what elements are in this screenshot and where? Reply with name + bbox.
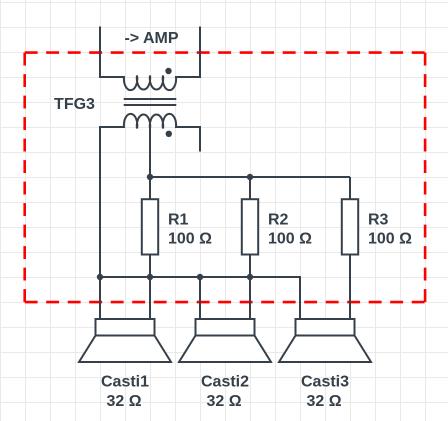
transformer TFG3 secondary winding, left lead to bottom bus, right stub [100,114,200,277]
resistor R3 body [342,199,358,254]
junction: speaker 2 left on bus [197,274,203,280]
resistor R2 body [242,199,258,254]
svg-text:100 Ω: 100 Ω [368,231,412,248]
svg-text:R1: R1 [168,211,189,228]
wire: R1 bottom lead [149,255,151,278]
transformer TFG3 core lines [124,99,177,105]
speaker Casti2 magnet box [196,319,255,336]
wire: secondary center tap down to top bus [149,127,151,177]
svg-text:100 Ω: 100 Ω [168,231,212,248]
resistor R1 body [142,199,158,254]
junction: R2 top [247,174,253,180]
transformer secondary phase dot [166,131,172,137]
speaker Casti3 magnet box [296,319,355,336]
speaker Casti1 magnet box [96,319,155,336]
junction: secondary return at bottom bus [97,274,103,280]
speaker Casti2 cone [179,336,271,363]
wire: R2 top lead [249,177,251,200]
transformer primary phase dot [165,68,171,74]
svg-text:R3: R3 [368,211,389,228]
wire: speaker 1 left terminal [99,277,101,319]
svg-text:32 Ω: 32 Ω [206,393,241,410]
speaker Casti3 cone [279,336,371,363]
wire: bottom bus y=277 with corner down to speaker 3 left terminal [100,277,300,319]
wire: speaker 2 right terminal [249,277,251,319]
wire: R3 bottom lead down to speaker 3 [349,255,351,320]
speaker Casti1 cone [79,336,171,363]
svg-text:TFG3: TFG3 [54,96,95,113]
svg-text:32 Ω: 32 Ω [306,393,341,410]
wire: speaker 1 right terminal [149,277,151,319]
junction: center tap / R1 top [147,174,153,180]
svg-text:Casti2: Casti2 [201,374,249,391]
red dashed boundary box [25,53,425,303]
junction: R2 bottom [247,274,253,280]
svg-text:100 Ω: 100 Ω [268,231,312,248]
svg-text:32 Ω: 32 Ω [106,393,141,410]
wire: R1 top lead [149,177,151,200]
wire: top bus y=177 [150,176,350,178]
wire: R3 top lead [349,177,351,200]
svg-text:Casti1: Casti1 [101,374,149,391]
wire: R2 bottom lead [249,255,251,278]
svg-text:R2: R2 [268,211,289,228]
svg-text:Casti3: Casti3 [301,374,349,391]
transformer TFG3 primary winding with leads up to AMP node [100,27,200,91]
wire: speaker 2 left terminal [199,277,201,319]
junction: R1 bottom [147,274,153,280]
svg-text:-> AMP: -> AMP [124,30,178,47]
